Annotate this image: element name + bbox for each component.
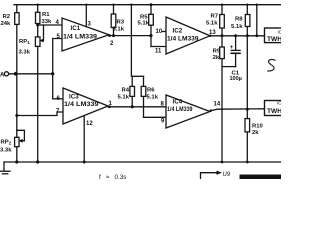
- svg-text:100µ: 100µ: [230, 76, 242, 82]
- node pin12 bus: [83, 161, 86, 164]
- svg-text:R4: R4: [122, 88, 130, 94]
- node R4 out: [131, 105, 134, 108]
- capacitor C1: [235, 36, 237, 51]
- black bar bottom right: [240, 175, 282, 180]
- wire RP1 wiper riser: [41, 25, 43, 41]
- wire IC1 pin3 VCC: [85, 5, 87, 27]
- svg-text:1/4 LM339: 1/4 LM339: [167, 35, 199, 42]
- wire IC2 output pin13: [210, 35, 265, 37]
- svg-text:5.1k: 5.1k: [113, 27, 125, 33]
- node R1 rail: [37, 3, 39, 5]
- wire IC3 pin7 from bias line: [17, 112, 63, 116]
- node R7R9: [221, 34, 224, 37]
- wire IC1 pin4: [38, 24, 62, 26]
- resistor R7: [221, 5, 223, 36]
- svg-text:2k: 2k: [213, 55, 220, 61]
- svg-text:R3: R3: [117, 20, 125, 26]
- svg-text:f: f: [99, 174, 101, 179]
- resistor R10: [246, 109, 248, 162]
- resistor R9: [221, 36, 223, 67]
- node R10 bus: [246, 161, 249, 164]
- svg-text:1/4 LM339: 1/4 LM339: [64, 101, 99, 108]
- resistor R8: [246, 5, 248, 110]
- TWH box 1: [265, 28, 284, 43]
- svg-text:5.1k: 5.1k: [138, 21, 150, 27]
- node R3 out: [112, 34, 115, 37]
- wire box1 VCC feeder: [256, 5, 258, 36]
- wire RP2 wiper loop: [17, 130, 25, 141]
- svg-text:5.1k: 5.1k: [231, 24, 243, 30]
- svg-text:1/4 LM339: 1/4 LM339: [63, 34, 98, 41]
- TWH box 2: [265, 101, 284, 116]
- node feeder rail: [130, 3, 132, 5]
- op-amp IC1 triangle: [62, 18, 109, 51]
- wire V+ top rail: [14, 4, 281, 6]
- node IC2 apex: [209, 35, 211, 37]
- wire R1/RP1 vertical line: [37, 5, 39, 162]
- svg-text:U9: U9: [223, 172, 231, 178]
- svg-text:RP2: RP2: [1, 140, 12, 146]
- svg-text:33k: 33k: [42, 19, 53, 25]
- resistor R4: [131, 76, 133, 107]
- wire IC2 pin11: [151, 46, 166, 48]
- ground bus: [4, 161, 281, 163]
- node R9C1 bus: [221, 161, 224, 164]
- svg-text:≈: ≈: [106, 174, 110, 179]
- svg-text:TWH: TWH: [267, 108, 281, 115]
- resistor R3: [113, 5, 115, 36]
- node box1 feeder rail: [256, 3, 258, 5]
- svg-text:1/4 LM339: 1/4 LM339: [167, 106, 193, 113]
- svg-text:11: 11: [155, 49, 162, 55]
- ground symbol: [3, 162, 5, 171]
- svg-text:5.1k: 5.1k: [206, 21, 218, 27]
- wiper arrow RP1: [39, 39, 43, 43]
- svg-text:24k: 24k: [1, 21, 12, 27]
- svg-text:3.3k: 3.3k: [0, 148, 12, 154]
- potentiometer RP1: [35, 37, 40, 47]
- resistor R2: [15, 13, 19, 25]
- wire R9 C1 join: [222, 66, 236, 68]
- node A riser: [51, 72, 54, 75]
- svg-text:2k: 2k: [252, 130, 259, 136]
- arrowhead U9: [217, 171, 223, 175]
- wire IC3 pin12 ground: [83, 116, 85, 162]
- node R10 out14: [246, 108, 249, 111]
- wire IC1 output pin2: [109, 35, 151, 37]
- svg-text:14: 14: [214, 102, 221, 108]
- op-amp IC2 triangle: [166, 17, 210, 54]
- svg-text:IC4: IC4: [173, 99, 183, 106]
- svg-text:3.3k: 3.3k: [19, 50, 31, 56]
- svg-text:TWH: TWH: [267, 36, 281, 43]
- svg-text:+: +: [230, 45, 234, 51]
- node RP1 bus: [36, 160, 39, 163]
- svg-text:R9: R9: [213, 49, 221, 55]
- svg-text:5.1k: 5.1k: [147, 95, 159, 101]
- svg-text:R6: R6: [147, 88, 155, 94]
- terminal A circle: [4, 72, 8, 76]
- wire R4 R6 feeder: [131, 5, 143, 77]
- wire node A horizontal: [9, 73, 53, 75]
- node IC3 apex: [108, 105, 111, 108]
- node A junction: [14, 72, 18, 76]
- node feeder out13: [255, 34, 258, 37]
- node R7 rail: [221, 3, 223, 5]
- resistor R1: [36, 12, 40, 23]
- svg-text:5.1k: 5.1k: [118, 95, 130, 101]
- svg-text:R2: R2: [3, 14, 11, 20]
- node pin7 tap: [15, 114, 18, 117]
- svg-text:R10: R10: [252, 124, 264, 130]
- potentiometer RP2: [15, 137, 19, 146]
- node RP2 bus: [15, 160, 18, 163]
- wiper arrow RP2: [18, 139, 22, 143]
- node R3 rail: [112, 3, 114, 5]
- wire R9C1 node to ground: [221, 67, 223, 162]
- svg-text:IC3: IC3: [69, 94, 79, 101]
- resistor R5: [150, 5, 152, 47]
- svg-text:IC: IC: [277, 101, 281, 106]
- node R1 pin4: [36, 24, 39, 27]
- node IC4 apex: [210, 109, 212, 111]
- wire R2/A/RP2 vertical line: [16, 5, 18, 162]
- node R8 rail: [246, 3, 248, 5]
- resistor R6: [143, 76, 145, 117]
- svg-text:IC2: IC2: [173, 28, 183, 35]
- node pin3 rail: [85, 3, 87, 5]
- svg-text:R7: R7: [211, 14, 219, 20]
- wire IC1 pin5: [53, 39, 62, 99]
- node IC1 apex: [108, 34, 111, 37]
- wire IC4 pin9: [144, 116, 167, 118]
- node R8 out13: [246, 34, 249, 37]
- svg-text:0.3s: 0.3s: [115, 174, 127, 179]
- svg-text:10: 10: [156, 29, 163, 35]
- wire IC3 output pin1: [108, 106, 166, 108]
- svg-text:R8: R8: [235, 17, 243, 23]
- op-amp IC3 triangle: [63, 88, 108, 124]
- svg-text:12: 12: [86, 121, 93, 127]
- svg-text:IC1: IC1: [71, 25, 81, 32]
- svg-text:13: 13: [209, 30, 216, 36]
- wire IC4 output pin14: [210, 109, 265, 111]
- svg-text:A: A: [0, 73, 5, 79]
- node R5 rail: [150, 3, 153, 6]
- svg-text:RP1: RP1: [19, 39, 30, 45]
- svg-text:IC: IC: [278, 30, 282, 35]
- wire IC2 pin10 stub: [162, 31, 166, 33]
- S squiggle mark: [268, 60, 275, 71]
- bottom arrow U9: [201, 173, 218, 179]
- node R5 out: [149, 34, 152, 37]
- svg-text:R1: R1: [42, 12, 50, 18]
- wire IC3 pin6: [53, 98, 63, 100]
- node C1 top: [234, 34, 237, 37]
- op-amp IC4 triangle: [166, 95, 210, 128]
